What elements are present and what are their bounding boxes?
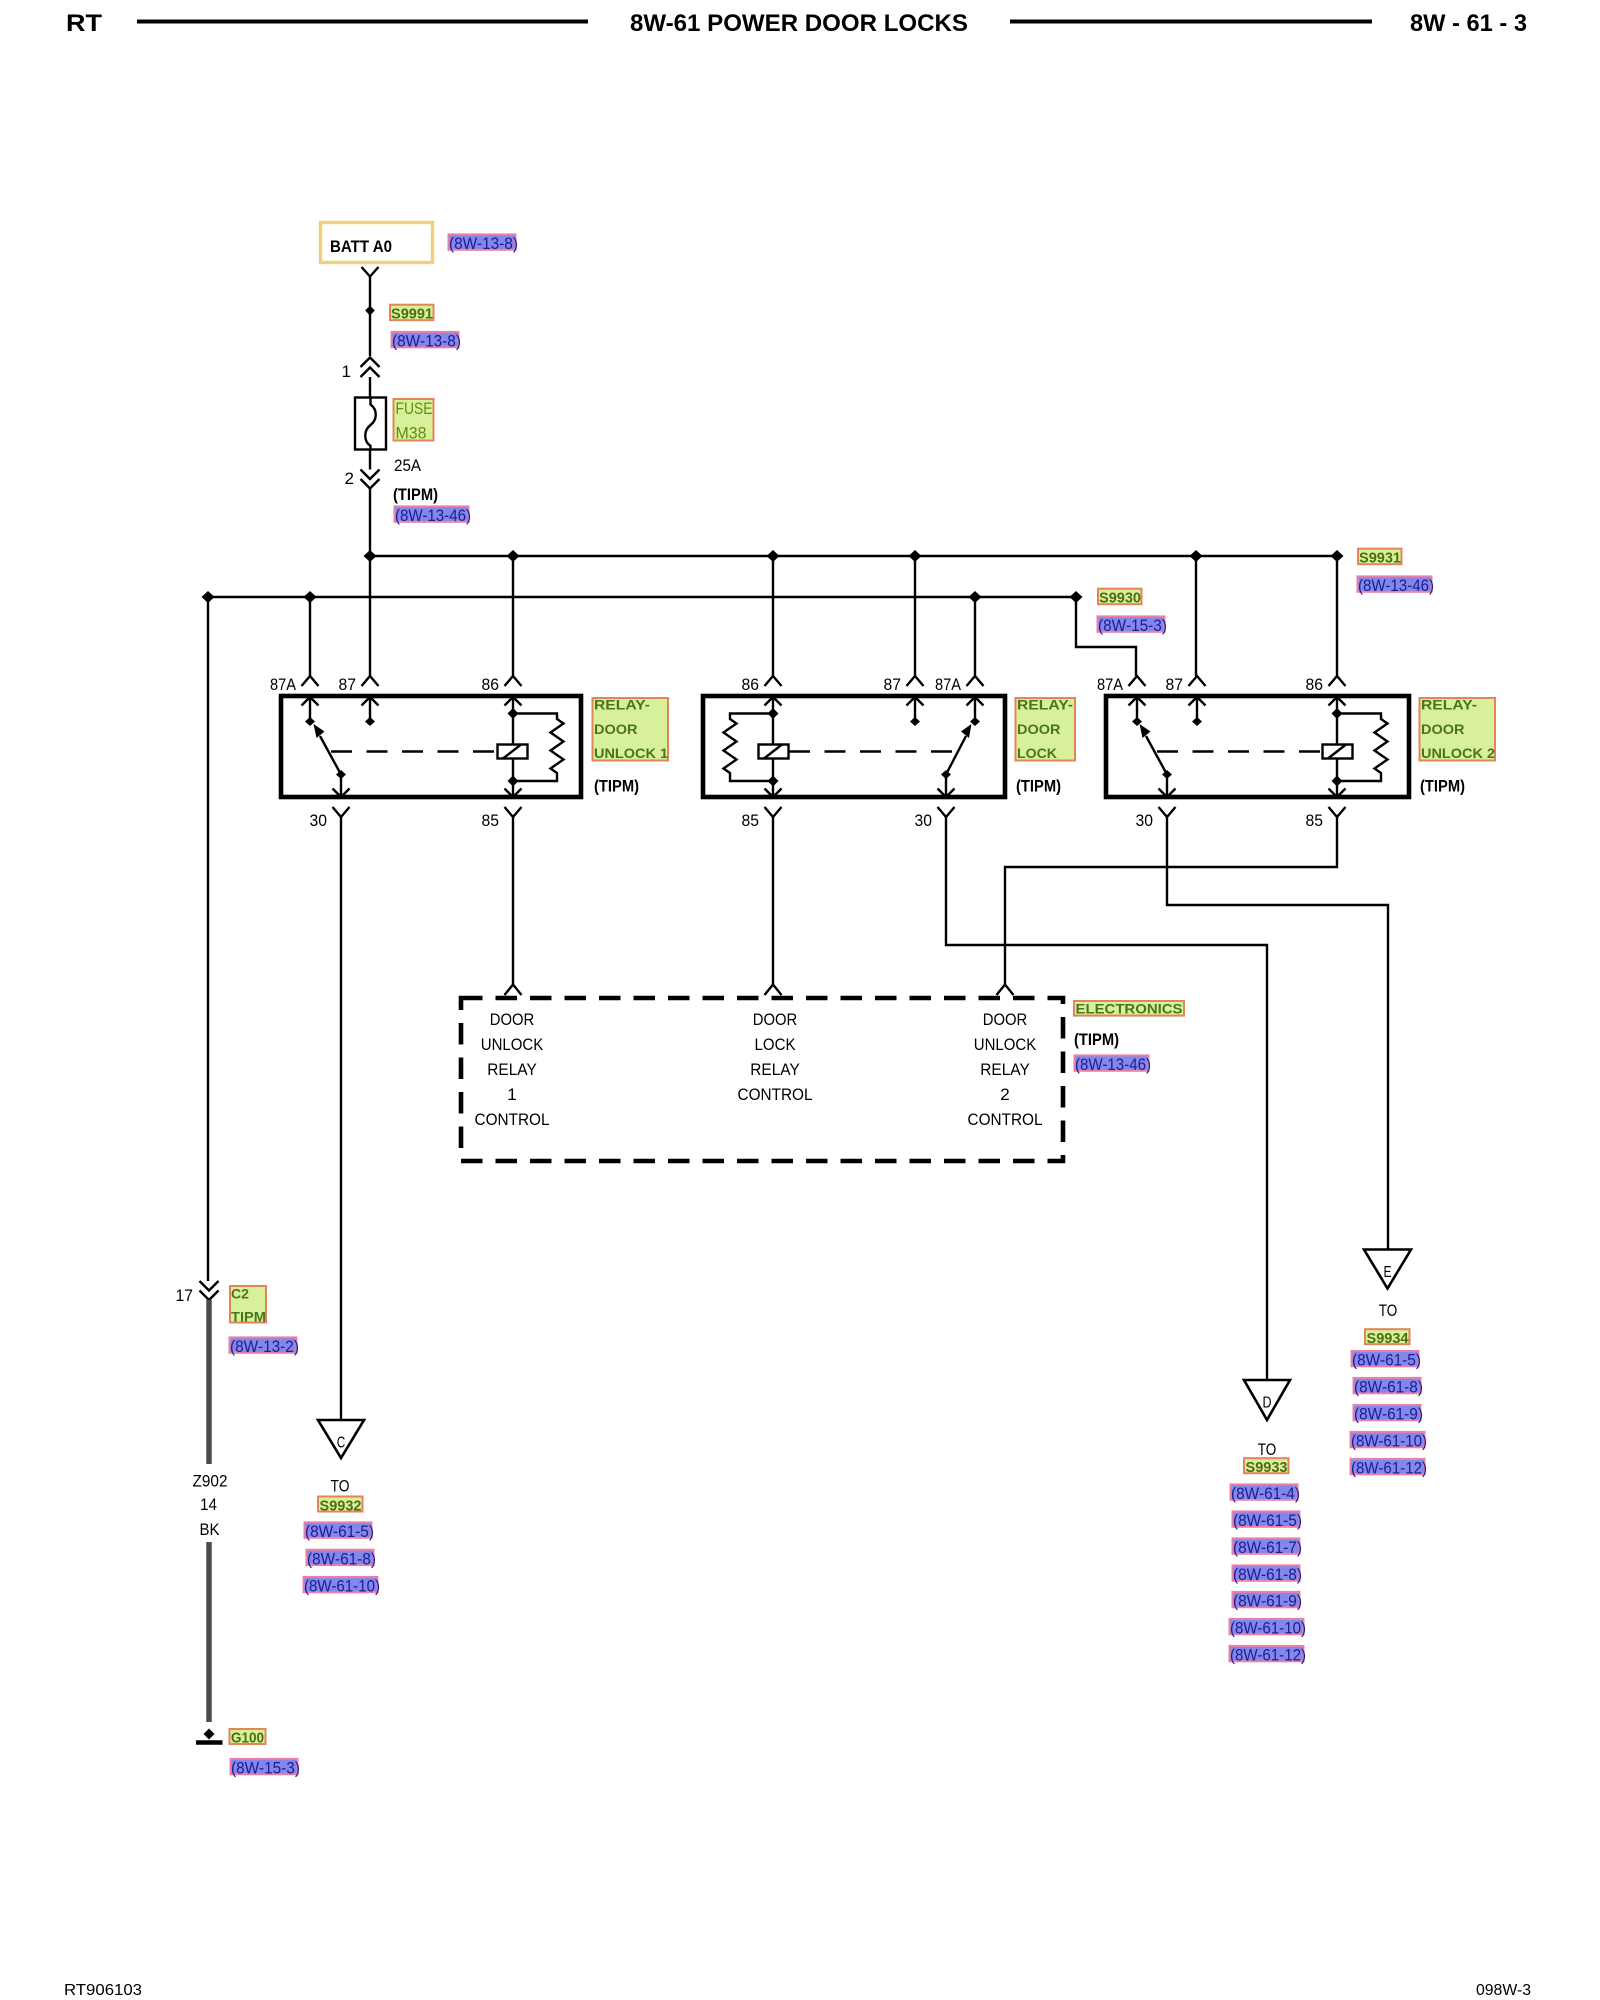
- reference label (8W-13-8) for BATT A0: [449, 234, 519, 253]
- svg-text:Z902: Z902: [193, 1472, 228, 1491]
- reference label (8W-61-5) for S9933: [1233, 1511, 1303, 1530]
- battery feed box BATT A0: [321, 223, 433, 263]
- svg-text:BK: BK: [200, 1520, 221, 1539]
- svg-text:RELAY: RELAY: [750, 1060, 800, 1079]
- bus1 power rail: [370, 555, 1337, 557]
- svg-text:TO: TO: [1258, 1440, 1277, 1459]
- svg-text:30: 30: [1136, 811, 1154, 830]
- electronics input connector 3: [997, 985, 1014, 996]
- relay K3 coil resistor: [1337, 714, 1388, 782]
- reference label (8W-61-8) for S9932: [307, 1549, 377, 1568]
- wire connector 1 to fuse: [369, 377, 371, 398]
- svg-text:(8W-61-12): (8W-61-12): [1230, 1646, 1306, 1665]
- svg-text:DOOR: DOOR: [753, 1010, 798, 1029]
- svg-text:85: 85: [742, 811, 760, 830]
- reference label (8W-13-46) for S9931: [1358, 576, 1435, 595]
- svg-text:87A: 87A: [1097, 675, 1124, 694]
- svg-text:30: 30: [915, 811, 933, 830]
- wire bus1 to relay2 pin87: [914, 556, 916, 676]
- label TO S9932: [318, 1477, 363, 1515]
- relay K1 coil: [498, 708, 528, 787]
- reference label (8W-61-12) for S9933: [1230, 1646, 1307, 1665]
- relay K3 dashed actuator link: [1157, 750, 1322, 752]
- reference label (8W-61-5) for S9934: [1352, 1351, 1422, 1370]
- svg-text:(8W-13-46): (8W-13-46): [1358, 576, 1434, 595]
- label RELAY-DOOR UNLOCK 2: [1420, 697, 1496, 762]
- svg-text:LOCK: LOCK: [755, 1035, 797, 1054]
- electronics TIPM dashed box: [461, 998, 1063, 1161]
- relay K2 coil resistor: [724, 714, 774, 782]
- svg-text:2: 2: [345, 469, 354, 488]
- wire relay3 pin30 to arrow E: [1167, 817, 1388, 1250]
- reference label (8W-13-8) for S9991: [392, 332, 462, 351]
- splice S9991 diamond: [365, 306, 375, 316]
- svg-text:86: 86: [742, 675, 760, 694]
- label TO S9933: [1244, 1440, 1289, 1476]
- svg-text:C2: C2: [231, 1286, 249, 1302]
- wire relay2 pin85 to electronics input 2: [772, 817, 774, 984]
- svg-text:(TIPM): (TIPM): [1074, 1030, 1119, 1049]
- reference label (8W-13-2) for C2: [230, 1337, 300, 1356]
- svg-text:85: 85: [1306, 811, 1324, 830]
- svg-text:DOOR: DOOR: [983, 1010, 1028, 1029]
- wire fuse to bus1: [369, 450, 371, 470]
- svg-text:87A: 87A: [935, 675, 962, 694]
- wire relay3 pin85 to electronics input 3: [1005, 817, 1337, 984]
- relay K2 coil: [759, 708, 789, 787]
- svg-text:(8W-13-8): (8W-13-8): [449, 234, 518, 253]
- relay K1 pin 86 connector: [482, 675, 522, 714]
- svg-text:098W-3: 098W-3: [1476, 1982, 1531, 1999]
- label S9991: [390, 305, 434, 323]
- off-page arrow E: [1364, 1250, 1411, 1289]
- relay K2 switch arm: [941, 724, 972, 779]
- relay K2 box RELAY-DOOR LOCK: [703, 696, 1005, 797]
- svg-text:(TIPM): (TIPM): [1016, 777, 1061, 796]
- svg-text:30: 30: [310, 811, 328, 830]
- svg-text:UNLOCK: UNLOCK: [974, 1035, 1037, 1054]
- bus1 junction to relay1 pin86: [507, 550, 520, 562]
- svg-text:G100: G100: [231, 1730, 264, 1747]
- relay K3 pin 87 connector: [1166, 675, 1206, 726]
- relay K3 coil: [1323, 708, 1353, 787]
- label C2 TIPM: [230, 1286, 266, 1325]
- svg-text:1: 1: [342, 362, 351, 381]
- svg-text:RELAY: RELAY: [487, 1060, 537, 1079]
- wire bus2 to relay2 pin87A: [974, 597, 976, 676]
- svg-text:(8W-13-46): (8W-13-46): [395, 506, 471, 525]
- svg-text:UNLOCK 1: UNLOCK 1: [594, 745, 668, 761]
- relay K3 pin 86 connector: [1306, 675, 1346, 714]
- label ELECTRONICS: [1074, 1001, 1184, 1017]
- electronics text door unlock relay 2 control: [968, 1010, 1043, 1129]
- wire bus2 to ground drop: [207, 597, 209, 1281]
- bus2 junction to ground drop: [202, 591, 215, 603]
- relay K1 pin 30 connector: [310, 775, 350, 831]
- svg-text:RELAY-: RELAY-: [1421, 697, 1477, 713]
- svg-text:86: 86: [1306, 675, 1324, 694]
- svg-text:BATT A0: BATT A0: [330, 237, 392, 256]
- bus2 ground rail: [208, 596, 1076, 598]
- svg-text:85: 85: [482, 811, 500, 830]
- svg-text:S9933: S9933: [1246, 1459, 1288, 1476]
- bus1 junction to relay3 pin87: [1190, 550, 1203, 562]
- reference label (8W-15-3) for S9930: [1098, 616, 1168, 635]
- label RELAY-DOOR UNLOCK 1: [593, 697, 669, 762]
- bus1 junction at fuse feed: [364, 550, 377, 562]
- wire BATT to splice: [369, 298, 371, 356]
- fuse M38 symbol: [355, 398, 386, 451]
- svg-text:TIPM: TIPM: [231, 1309, 266, 1325]
- wire label Z902 14 BK: [193, 1472, 228, 1540]
- svg-text:87: 87: [1166, 675, 1184, 694]
- relay K1 box RELAY-DOOR UNLOCK 1: [281, 696, 581, 797]
- wire relay1 pin30 to arrow C: [340, 817, 342, 1420]
- svg-text:(8W-61-8): (8W-61-8): [1354, 1378, 1423, 1397]
- ground wire Z902 upper segment: [206, 1300, 212, 1464]
- svg-text:DOOR: DOOR: [594, 721, 638, 737]
- svg-text:(8W-13-2): (8W-13-2): [230, 1337, 299, 1356]
- svg-text:M38: M38: [396, 424, 427, 442]
- relay K2 pin 30 connector: [915, 775, 955, 831]
- svg-text:TO: TO: [1379, 1301, 1398, 1320]
- wire relay2 pin30 to arrow D: [946, 817, 1267, 1380]
- svg-text:(8W-61-5): (8W-61-5): [1233, 1511, 1302, 1530]
- svg-text:RELAY-: RELAY-: [594, 697, 650, 713]
- svg-text:86: 86: [482, 675, 500, 694]
- electronics input connector 1: [505, 985, 522, 996]
- wire bus1 to relay3 pin86: [1336, 556, 1338, 676]
- header left rule: [137, 20, 588, 24]
- svg-text:(8W-15-3): (8W-15-3): [1098, 616, 1167, 635]
- relay K3 pin 87A connector: [1097, 675, 1146, 726]
- connector Y below BATT A0: [362, 267, 379, 298]
- relay K1 pin 85 connector: [482, 781, 522, 830]
- relay K3 pin 85 connector: [1306, 781, 1346, 830]
- svg-text:(8W-61-10): (8W-61-10): [1230, 1619, 1306, 1638]
- relay K3 pin 30 connector: [1136, 775, 1176, 831]
- reference label (8W-61-8) for S9934: [1354, 1378, 1424, 1397]
- header right rule: [1010, 20, 1372, 24]
- svg-text:E: E: [1384, 1264, 1392, 1281]
- svg-text:25A: 25A: [394, 456, 422, 475]
- svg-text:8W - 61 - 3: 8W - 61 - 3: [1410, 10, 1527, 37]
- reference label (8W-61-10) for S9934: [1351, 1432, 1428, 1451]
- svg-text:CONTROL: CONTROL: [475, 1110, 550, 1129]
- relay K2 pin 87 connector: [884, 675, 924, 726]
- wire bus1 to relay2 pin86: [772, 556, 774, 676]
- relay K1 pin 87A connector: [270, 675, 319, 726]
- svg-text:UNLOCK 2: UNLOCK 2: [1421, 745, 1495, 761]
- svg-text:CONTROL: CONTROL: [738, 1085, 813, 1104]
- wire bus1 to relay1 pin87: [369, 556, 371, 676]
- label S9931: [1358, 549, 1402, 567]
- connector 2 double chevron: [345, 469, 380, 489]
- svg-text:(TIPM): (TIPM): [594, 777, 639, 796]
- label FUSE M38: [394, 399, 434, 442]
- svg-text:DOOR: DOOR: [1017, 721, 1061, 737]
- reference label (8W-61-8) for S9933: [1233, 1565, 1303, 1584]
- reference label (8W-15-3) for G100: [231, 1759, 301, 1778]
- svg-text:87: 87: [339, 675, 357, 694]
- svg-text:(TIPM): (TIPM): [1420, 777, 1465, 796]
- svg-text:RELAY: RELAY: [980, 1060, 1030, 1079]
- relay K2 pin 85 connector: [742, 781, 782, 830]
- bus2 junction to relay1 pin87A: [304, 591, 317, 603]
- wire relay1 pin85 to electronics input 1: [512, 817, 514, 984]
- svg-text:S9931: S9931: [1359, 550, 1401, 567]
- svg-text:ELECTRONICS: ELECTRONICS: [1076, 1001, 1183, 1017]
- svg-text:(8W-61-10): (8W-61-10): [304, 1577, 380, 1596]
- off-page arrow C: [318, 1420, 364, 1458]
- reference label (8W-13-46) under fuse: [395, 506, 472, 525]
- relay K1 coil resistor: [513, 714, 564, 782]
- reference label (8W-61-10) for S9932: [304, 1577, 381, 1596]
- connector 17 double chevron C2: [176, 1281, 219, 1305]
- svg-text:DOOR: DOOR: [490, 1010, 535, 1029]
- svg-text:2: 2: [1000, 1085, 1009, 1104]
- label RELAY-DOOR LOCK: [1016, 697, 1076, 762]
- svg-text:14: 14: [200, 1495, 217, 1514]
- svg-text:1: 1: [507, 1085, 516, 1104]
- relay K2 pin 86 connector: [742, 675, 782, 714]
- svg-text:C: C: [337, 1435, 346, 1452]
- electronics text door unlock relay 1 control: [475, 1010, 550, 1129]
- svg-text:(8W-61-9): (8W-61-9): [1354, 1405, 1423, 1424]
- reference label (8W-61-7) for S9933: [1233, 1538, 1303, 1557]
- svg-text:(8W-61-5): (8W-61-5): [1352, 1351, 1421, 1370]
- reference label (8W-13-46) electronics: [1075, 1055, 1152, 1074]
- bus2 junction to relay2 pin87A: [969, 591, 982, 603]
- reference label (8W-61-5) for S9932: [305, 1522, 375, 1541]
- svg-text:RT906103: RT906103: [64, 1982, 142, 1999]
- svg-text:(8W-61-9): (8W-61-9): [1233, 1592, 1302, 1611]
- bus1 junction S9931: [1331, 550, 1344, 562]
- connector 1 double chevron: [342, 358, 380, 382]
- svg-text:S9930: S9930: [1099, 590, 1141, 607]
- svg-text:(8W-61-7): (8W-61-7): [1233, 1538, 1302, 1557]
- svg-text:FUSE: FUSE: [396, 400, 433, 418]
- svg-text:17: 17: [176, 1286, 194, 1305]
- svg-text:87: 87: [884, 675, 902, 694]
- relay K2 pin 87A connector: [935, 675, 984, 726]
- relay K2 dashed actuator link: [789, 750, 952, 752]
- svg-text:(8W-61-5): (8W-61-5): [305, 1522, 374, 1541]
- svg-text:(8W-61-8): (8W-61-8): [1233, 1565, 1302, 1584]
- label TO S9934: [1365, 1301, 1410, 1347]
- svg-text:87A: 87A: [270, 675, 297, 694]
- bus2 junction S9930: [1070, 591, 1083, 603]
- label S9930: [1098, 589, 1142, 607]
- wire bus2 jog to relay3 pin87A: [1076, 597, 1136, 676]
- reference label (8W-61-9) for S9933: [1233, 1592, 1303, 1611]
- svg-text:(8W-61-10): (8W-61-10): [1351, 1432, 1427, 1451]
- relay K3 box RELAY-DOOR UNLOCK 2: [1106, 696, 1409, 797]
- svg-text:RELAY-: RELAY-: [1017, 697, 1073, 713]
- ground G100 symbol: [196, 1729, 223, 1743]
- svg-text:(8W-13-46): (8W-13-46): [1075, 1055, 1151, 1074]
- svg-text:LOCK: LOCK: [1017, 745, 1057, 761]
- svg-text:TO: TO: [331, 1477, 350, 1496]
- bus1 junction to relay2 pin86: [767, 550, 780, 562]
- electronics text door lock relay control: [738, 1010, 813, 1104]
- reference label (8W-61-4) for S9933: [1231, 1484, 1301, 1503]
- svg-text:(8W-15-3): (8W-15-3): [231, 1759, 300, 1778]
- svg-text:S9934: S9934: [1367, 1330, 1410, 1347]
- wire bus1 to relay3 pin87: [1195, 556, 1197, 676]
- relay K1 pin 87 connector: [339, 675, 379, 726]
- off-page arrow D: [1244, 1380, 1290, 1420]
- svg-text:(8W-61-4): (8W-61-4): [1231, 1484, 1300, 1503]
- svg-text:CONTROL: CONTROL: [968, 1110, 1043, 1129]
- electronics input connector 2: [765, 985, 782, 996]
- relay K1 switch arm: [314, 724, 347, 779]
- wire bus1 to relay1 pin86: [512, 556, 514, 676]
- svg-text:8W-61 POWER DOOR LOCKS: 8W-61 POWER DOOR LOCKS: [630, 10, 968, 37]
- svg-text:(8W-61-8): (8W-61-8): [307, 1549, 376, 1568]
- ground wire Z902 lower segment: [206, 1542, 212, 1722]
- svg-text:DOOR: DOOR: [1421, 721, 1465, 737]
- bus1 junction to relay2 pin87: [909, 550, 922, 562]
- reference label (8W-61-9) for S9934: [1354, 1405, 1424, 1424]
- wire bus2 to relay1 pin87A: [309, 597, 311, 676]
- svg-text:D: D: [1263, 1395, 1272, 1412]
- label G100: [230, 1729, 266, 1747]
- svg-text:S9932: S9932: [320, 1497, 362, 1514]
- relay K3 switch arm: [1140, 724, 1173, 779]
- reference label (8W-61-12) for S9934: [1351, 1459, 1428, 1478]
- svg-text:(TIPM): (TIPM): [393, 485, 438, 504]
- svg-text:UNLOCK: UNLOCK: [481, 1035, 544, 1054]
- svg-text:RT: RT: [66, 10, 102, 37]
- reference label (8W-61-10) for S9933: [1230, 1619, 1307, 1638]
- header left RT: [66, 10, 102, 37]
- relay K1 dashed actuator link: [331, 750, 497, 752]
- svg-text:(8W-13-8): (8W-13-8): [392, 332, 461, 351]
- svg-text:S9991: S9991: [391, 306, 433, 323]
- svg-text:(8W-61-12): (8W-61-12): [1351, 1459, 1427, 1478]
